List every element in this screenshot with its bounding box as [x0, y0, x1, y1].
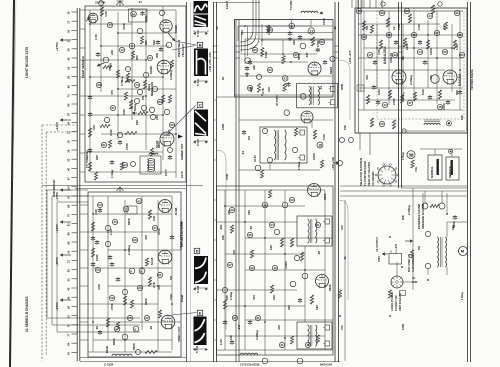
svg-text:+140 +250 +135: +140 +250 +135 — [208, 52, 212, 72]
svg-text:45.75MC: 45.75MC — [275, 95, 279, 106]
svg-text:680K: 680K — [157, 140, 161, 148]
svg-text:70: 70 — [67, 324, 71, 327]
svg-text:64GA25A: 64GA25A — [382, 46, 387, 64]
svg-text:77: 77 — [67, 333, 71, 336]
svg-text:66: 66 — [67, 85, 71, 88]
svg-text:1 Meg: 1 Meg — [460, 292, 464, 300]
svg-text:C: C — [199, 102, 202, 107]
svg-text:19: 19 — [273, 266, 277, 270]
svg-text:99: 99 — [290, 198, 294, 202]
svg-text:470K: 470K — [144, 15, 148, 22]
svg-text:44: 44 — [383, 103, 387, 107]
svg-text:92: 92 — [250, 266, 254, 270]
svg-text:270K: 270K — [442, 102, 446, 110]
svg-text:1 Meg: 1 Meg — [110, 170, 114, 178]
svg-text:5 CX: 5 CX — [196, 138, 200, 146]
svg-text:V1STB9 64G5A: V1STB9 64G5A — [470, 68, 474, 90]
svg-text:1 Meg: 1 Meg — [297, 162, 301, 170]
svg-text:UNIT 64GA25A: UNIT 64GA25A — [398, 293, 402, 311]
svg-text:+275V: +275V — [55, 41, 59, 51]
svg-text:270K: 270K — [322, 17, 326, 25]
svg-text:1K: 1K — [221, 77, 225, 80]
svg-text:28: 28 — [263, 203, 267, 207]
svg-text:+140V: +140V — [55, 121, 59, 131]
svg-text:270K: 270K — [397, 24, 401, 30]
svg-text:31 470K: 31 470K — [95, 1, 106, 5]
svg-text:21 SERIES B CHASSIS: 21 SERIES B CHASSIS — [25, 296, 29, 332]
svg-text:330: 330 — [247, 210, 251, 215]
svg-text:470: 470 — [340, 325, 344, 330]
svg-text:89: 89 — [320, 40, 324, 44]
svg-text:37: 37 — [408, 101, 412, 105]
svg-text:49: 49 — [67, 296, 71, 299]
svg-text:31: 31 — [67, 39, 71, 42]
svg-text:41: 41 — [316, 223, 320, 227]
svg-text:82K: 82K — [152, 39, 156, 45]
svg-text:SELECTOR SHOWN IN: SELECTOR SHOWN IN — [359, 158, 363, 186]
svg-text:.05: .05 — [149, 326, 153, 330]
svg-text:69: 69 — [380, 11, 384, 15]
svg-text:36: 36 — [230, 208, 234, 212]
svg-text:SPEAKER SOCKET: SPEAKER SOCKET — [421, 204, 425, 229]
svg-text:+40Z +275: +40Z +275 — [348, 50, 352, 64]
svg-text:MERIDIAN: MERIDIAN — [150, 82, 154, 96]
svg-text:LIGHT: LIGHT — [225, 1, 229, 9]
svg-text:.02: .02 — [95, 326, 99, 330]
svg-text:10K: 10K — [343, 125, 347, 130]
svg-text:6: 6 — [134, 327, 136, 331]
svg-text:59: 59 — [67, 76, 71, 79]
svg-text:3.9K: 3.9K — [322, 133, 326, 140]
svg-text:5%: 5% — [365, 25, 369, 30]
svg-text:80: 80 — [67, 103, 71, 106]
svg-text:1.5K: 1.5K — [94, 33, 98, 40]
svg-text:6BZ6: 6BZ6 — [329, 67, 333, 74]
svg-text:82K: 82K — [401, 215, 405, 220]
svg-text:SWEEP OUT: SWEEP OUT — [180, 143, 184, 160]
svg-text:23: 23 — [138, 286, 142, 290]
svg-text:E: E — [199, 310, 202, 315]
svg-text:35: 35 — [67, 278, 71, 281]
svg-text:.05: .05 — [317, 251, 321, 255]
svg-text:98: 98 — [362, 35, 366, 39]
svg-text:84: 84 — [67, 342, 71, 345]
svg-text:.01: .01 — [319, 86, 323, 90]
svg-text:95: 95 — [248, 233, 252, 237]
svg-text:37: 37 — [111, 106, 115, 110]
svg-text:6.8K: 6.8K — [421, 88, 425, 95]
svg-text:21: 21 — [148, 56, 152, 60]
svg-text:6826: 6826 — [328, 284, 332, 291]
svg-text:17: 17 — [368, 53, 372, 57]
svg-text:KEYED AGC 6AU8: KEYED AGC 6AU8 — [180, 221, 184, 247]
svg-text:39: 39 — [393, 53, 397, 57]
svg-text:33: 33 — [67, 158, 71, 161]
svg-text:96: 96 — [67, 241, 71, 244]
svg-text:22K: 22K — [292, 39, 296, 45]
svg-text:100K: 100K — [312, 152, 316, 160]
svg-text:14: 14 — [67, 250, 71, 253]
svg-text:68: 68 — [67, 204, 71, 207]
svg-text:5%: 5% — [169, 275, 173, 280]
svg-text:21: 21 — [67, 260, 71, 263]
svg-text:1Meg: 1Meg — [133, 104, 137, 111]
svg-text:21TY: 21TY — [164, 169, 168, 176]
svg-text:61: 61 — [67, 195, 71, 198]
svg-text:10K: 10K — [269, 244, 273, 250]
svg-text:PEAK: PEAK — [105, 345, 109, 353]
svg-text:680: 680 — [135, 55, 139, 60]
svg-text:47K: 47K — [157, 284, 161, 290]
svg-text:22K: 22K — [221, 235, 225, 240]
svg-text:82K: 82K — [135, 119, 139, 125]
svg-text:21T8: 21T8 — [180, 171, 184, 178]
svg-text:9: 9 — [140, 269, 142, 273]
svg-text:21: 21 — [158, 273, 162, 277]
svg-text:270K: 270K — [110, 302, 114, 310]
svg-text:5%: 5% — [401, 56, 405, 60]
svg-text:330: 330 — [240, 30, 244, 35]
svg-text:74: 74 — [135, 83, 139, 87]
svg-text:22: 22 — [145, 316, 149, 320]
svg-text:680: 680 — [144, 40, 148, 45]
svg-text:AUDIO POWER: AUDIO POWER — [390, 292, 394, 311]
svg-text:2.2Meg: 2.2Meg — [127, 245, 131, 255]
svg-text:33K: 33K — [252, 64, 256, 70]
svg-text:44: 44 — [428, 14, 432, 18]
svg-text:1 Meg: 1 Meg — [401, 152, 405, 160]
svg-text:47K: 47K — [365, 74, 369, 80]
svg-text:97: 97 — [228, 263, 232, 267]
svg-text:91: 91 — [256, 316, 260, 320]
svg-text:470: 470 — [252, 295, 256, 300]
svg-text:AS VIEWED: AS VIEWED — [371, 171, 375, 186]
svg-text:6AW8: 6AW8 — [174, 25, 178, 33]
svg-text:47: 47 — [67, 177, 71, 180]
svg-text:82K: 82K — [95, 154, 99, 160]
svg-text:1 Meg: 1 Meg — [229, 292, 233, 300]
svg-text:1.5Meg: 1.5Meg — [120, 76, 124, 86]
svg-text:560K: 560K — [144, 297, 148, 305]
svg-text:C-2134: C-2134 — [104, 363, 114, 367]
svg-text:94: 94 — [67, 122, 71, 125]
svg-text:13: 13 — [120, 48, 124, 52]
svg-text:50: 50 — [443, 50, 447, 54]
svg-text:3.9K: 3.9K — [94, 208, 98, 215]
svg-text:87: 87 — [67, 112, 71, 115]
svg-text:+275: +275 — [394, 243, 398, 250]
svg-text:.01: .01 — [343, 256, 347, 260]
svg-text:10: 10 — [67, 11, 71, 14]
svg-text:.047: .047 — [305, 52, 309, 58]
svg-text:6AU8: 6AU8 — [150, 257, 154, 265]
svg-text:470K: 470K — [109, 129, 113, 136]
svg-text:10K: 10K — [152, 216, 156, 221]
svg-text:1.5K: 1.5K — [219, 338, 223, 345]
svg-text:3.9K: 3.9K — [97, 283, 101, 290]
svg-text:53: 53 — [98, 203, 102, 207]
svg-text:D: D — [196, 248, 199, 253]
svg-text:24: 24 — [67, 30, 71, 33]
svg-text:87: 87 — [233, 316, 237, 320]
svg-text:3.3K: 3.3K — [104, 10, 108, 17]
svg-text:42: 42 — [137, 199, 141, 203]
svg-text:470: 470 — [110, 90, 114, 95]
svg-text:560K: 560K — [132, 342, 136, 350]
svg-text:29: 29 — [133, 238, 137, 242]
svg-text:TO PIN 4: TO PIN 4 — [289, 0, 293, 10]
svg-text:45: 45 — [113, 220, 117, 224]
svg-text:37: 37 — [153, 226, 157, 230]
svg-text:18: 18 — [318, 143, 322, 147]
svg-text:55: 55 — [380, 122, 384, 126]
svg-text:100K BRIGHT: 100K BRIGHT — [52, 179, 56, 197]
svg-text:6.8K: 6.8K — [377, 88, 381, 95]
svg-text:22K: 22K — [155, 114, 159, 120]
svg-text:.01: .01 — [241, 151, 245, 155]
svg-text:4.7K: 4.7K — [261, 88, 265, 94]
svg-text:470: 470 — [92, 125, 96, 130]
svg-text:5%: 5% — [141, 95, 145, 100]
svg-text:470: 470 — [429, 75, 433, 80]
svg-text:12: 12 — [67, 131, 71, 134]
svg-text:.047: .047 — [237, 324, 241, 330]
svg-text:VOL: VOL — [414, 166, 418, 172]
svg-text:87: 87 — [158, 100, 162, 104]
svg-text:.001: .001 — [167, 129, 171, 135]
svg-text:560K: 560K — [340, 84, 344, 90]
svg-text:1.5K: 1.5K — [109, 228, 113, 235]
svg-text:31: 31 — [280, 343, 284, 347]
svg-text:28: 28 — [67, 269, 71, 272]
svg-text:18K: 18K — [229, 335, 233, 340]
svg-text:470: 470 — [232, 250, 236, 255]
svg-text:330: 330 — [225, 295, 229, 300]
svg-text:8: 8 — [130, 269, 132, 273]
svg-text:150K: 150K — [264, 51, 268, 58]
svg-text:6AH8: 6AH8 — [180, 294, 184, 302]
svg-text:1K: 1K — [412, 276, 415, 280]
svg-text:45: 45 — [67, 57, 71, 60]
svg-text:1 Meg: 1 Meg — [401, 92, 405, 100]
svg-text:36: 36 — [132, 12, 136, 16]
svg-text:470K: 470K — [225, 174, 229, 180]
svg-text:30: 30 — [357, 9, 361, 13]
svg-text:TV POSITION FROM: TV POSITION FROM — [363, 161, 367, 186]
svg-text:2.2Meg: 2.2Meg — [409, 75, 413, 85]
svg-text:14: 14 — [108, 23, 112, 27]
svg-text:17: 17 — [124, 207, 128, 211]
svg-text:97: 97 — [435, 31, 439, 35]
svg-text:1.5K: 1.5K — [417, 23, 421, 30]
svg-text:58: 58 — [405, 9, 409, 13]
svg-text:54: 54 — [67, 186, 71, 189]
svg-text:80: 80 — [253, 48, 257, 52]
svg-text:B: B — [199, 42, 202, 47]
svg-text:91: 91 — [67, 352, 71, 355]
svg-text:38: 38 — [67, 48, 71, 51]
svg-text:EXTERNAL SOUND: EXTERNAL SOUND — [417, 204, 421, 229]
svg-text:61: 61 — [460, 53, 464, 57]
svg-text:100K: 100K — [405, 42, 409, 50]
svg-text:41.25: 41.25 — [253, 155, 257, 162]
svg-text:56: 56 — [248, 86, 252, 90]
svg-text:22K: 22K — [272, 294, 276, 300]
svg-text:18K: 18K — [460, 115, 464, 120]
svg-text:6CB6: 6CB6 — [174, 207, 178, 215]
svg-text:47K: 47K — [277, 324, 281, 330]
svg-text:5 CB: 5 CB — [196, 285, 200, 293]
svg-text:18K: 18K — [315, 304, 319, 310]
svg-text:NORMAL: NORMAL — [430, 166, 434, 178]
svg-text:470: 470 — [144, 235, 148, 240]
svg-text:LIGHT HOUSE 21T9: LIGHT HOUSE 21T9 — [25, 47, 29, 78]
svg-text:21T9 CHASSIS: 21T9 CHASSIS — [240, 363, 260, 367]
svg-text:120K: 120K — [429, 47, 433, 55]
svg-text:47: 47 — [294, 53, 298, 57]
svg-text:75: 75 — [67, 214, 71, 217]
svg-text:330: 330 — [287, 305, 291, 310]
svg-text:5%: 5% — [417, 245, 421, 250]
svg-text:NOT USED ON: NOT USED ON — [407, 254, 411, 272]
svg-text:38: 38 — [409, 152, 414, 157]
svg-text:2.2Meg: 2.2Meg — [407, 205, 411, 215]
svg-text:REAR OF CHASSIS: REAR OF CHASSIS — [367, 162, 371, 186]
svg-text:.02: .02 — [249, 226, 253, 230]
svg-text:5 CJ: 5 CJ — [196, 30, 200, 37]
svg-text:35: 35 — [170, 123, 174, 127]
svg-text:58: 58 — [110, 296, 114, 300]
svg-text:22: 22 — [284, 77, 288, 81]
svg-text:AF OUTPUT: AF OUTPUT — [375, 237, 379, 252]
svg-text:5 CA: 5 CA — [196, 78, 200, 86]
svg-text:72GALFT: 72GALFT — [181, 44, 185, 57]
svg-text:.001: .001 — [219, 224, 223, 230]
svg-text:VIDEO OUT: VIDEO OUT — [177, 326, 181, 342]
svg-text:6AW8: 6AW8 — [149, 66, 153, 74]
svg-text:1.5K: 1.5K — [455, 43, 459, 50]
svg-text:26: 26 — [67, 149, 71, 152]
svg-text:52: 52 — [67, 66, 71, 69]
svg-text:4.5MC: 4.5MC — [284, 261, 288, 269]
svg-text:19: 19 — [67, 140, 71, 143]
svg-text:13: 13 — [123, 163, 127, 167]
svg-text:270K: 270K — [125, 142, 129, 150]
svg-text:3.9K: 3.9K — [169, 293, 173, 300]
svg-text:39: 39 — [97, 83, 101, 87]
svg-text:31: 31 — [290, 24, 294, 28]
svg-text:82: 82 — [67, 223, 71, 226]
svg-text:680K: 680K — [452, 220, 456, 228]
svg-text:375V: 375V — [377, 256, 381, 262]
svg-text:40: 40 — [67, 168, 71, 171]
svg-text:470: 470 — [340, 225, 344, 230]
svg-text:90: 90 — [268, 68, 272, 72]
svg-text:81: 81 — [102, 143, 106, 147]
svg-text:3.9K: 3.9K — [377, 48, 381, 55]
svg-text:4.7K: 4.7K — [152, 282, 156, 288]
svg-text:12: 12 — [309, 29, 313, 33]
svg-text:91: 91 — [455, 11, 459, 15]
svg-text:44: 44 — [270, 223, 274, 227]
svg-text:51: 51 — [458, 33, 462, 37]
svg-text:2.2Meg: 2.2Meg — [169, 70, 173, 80]
svg-text:5%: 5% — [247, 135, 251, 140]
svg-text:42: 42 — [67, 287, 71, 290]
svg-text:2.2Meg: 2.2Meg — [255, 330, 259, 340]
svg-text:6.8K: 6.8K — [122, 108, 126, 115]
svg-text:35K: 35K — [155, 53, 159, 58]
svg-text:100K: 100K — [95, 254, 99, 261]
svg-text:63: 63 — [67, 315, 71, 318]
svg-text:47K: 47K — [267, 86, 271, 92]
svg-text:.01: .01 — [138, 0, 142, 4]
svg-text:14: 14 — [418, 50, 422, 54]
svg-text:LIGHT SENSE M: LIGHT SENSE M — [81, 56, 85, 78]
svg-text:120K: 120K — [401, 324, 405, 330]
svg-text:680K: 680K — [112, 337, 116, 345]
svg-text:TO TUNER B+: TO TUNER B+ — [85, 150, 89, 168]
svg-text:22K: 22K — [110, 49, 114, 55]
svg-text:89: 89 — [67, 232, 71, 235]
svg-text:470K: 470K — [122, 22, 126, 30]
svg-text:SOCKET ON: SOCKET ON — [394, 295, 398, 311]
svg-text:38: 38 — [412, 33, 416, 37]
svg-text:.02: .02 — [333, 26, 337, 30]
svg-text:73: 73 — [67, 94, 71, 97]
svg-text:680K: 680K — [127, 217, 131, 225]
svg-text:78: 78 — [306, 343, 310, 347]
svg-text:.02: .02 — [215, 26, 219, 30]
svg-text:17: 17 — [67, 20, 71, 23]
svg-text:53: 53 — [96, 268, 100, 272]
svg-text:64GA25A: 64GA25A — [320, 363, 332, 367]
svg-text:56: 56 — [67, 306, 71, 309]
svg-text:270K: 270K — [392, 97, 396, 105]
svg-text:120K: 120K — [221, 124, 225, 130]
